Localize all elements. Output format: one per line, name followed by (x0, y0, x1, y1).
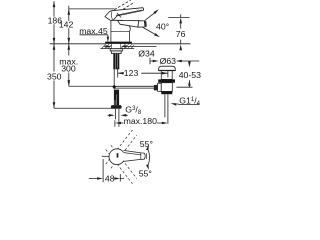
svg-text:40°: 40° (156, 22, 169, 32)
dimension G3/8 leader (108, 114, 128, 117)
popup rod (115, 86, 157, 88)
dimension 76 (168, 14, 189, 50)
top view pivot slot (117, 153, 119, 157)
drain side fitting (158, 83, 162, 91)
svg-text:G11/4: G11/4 (179, 95, 200, 107)
dimension max45 leader (80, 35, 110, 42)
drain neck (161, 71, 172, 80)
drain side knob (154, 85, 157, 90)
svg-text:55°: 55° (139, 169, 152, 179)
dimension 48 (89, 159, 124, 182)
hose junction diamond (112, 84, 116, 89)
svg-text:300: 300 (61, 64, 76, 74)
svg-text:123: 123 (124, 68, 139, 78)
drain body (161, 83, 172, 92)
deck slab cross-section with hatching (101, 44, 135, 49)
dimension max180 (115, 120, 168, 127)
svg-text:76: 76 (176, 29, 186, 39)
top view swivel arc (146, 145, 150, 170)
lower hose rod (114, 90, 119, 106)
faucet body (111, 20, 130, 41)
stub below nut (116, 109, 119, 127)
mounting nut (110, 49, 123, 51)
dimension 186 line (53, 1, 56, 108)
popup rod connector (156, 85, 160, 90)
dimension 40deg spray (143, 9, 160, 37)
G3/8 end nut (111, 105, 122, 109)
svg-text:Ø34: Ø34 (138, 48, 155, 58)
shank dark rod (113, 54, 119, 70)
dashed open lever (114, 0, 130, 9)
dimension 40-53 (176, 61, 192, 87)
svg-text:max.45: max.45 (79, 26, 108, 36)
aerator (138, 21, 145, 28)
faucet spout (118, 20, 139, 27)
dimension Ø63 (150, 58, 199, 64)
drain tail pipe (165, 94, 168, 124)
extension line 350 bottom (54, 107, 112, 109)
drain bottom band (161, 91, 172, 94)
svg-text:55°: 55° (140, 139, 153, 149)
drain flange (159, 66, 176, 70)
top view dashed swivel bands (106, 130, 137, 184)
svg-text:350: 350 (47, 72, 62, 82)
svg-text:40-53: 40-53 (179, 70, 201, 80)
svg-text:142: 142 (59, 19, 74, 29)
extension line max300 bottom (69, 85, 113, 87)
svg-text:Ø63: Ø63 (160, 56, 177, 66)
top view lever (124, 150, 146, 161)
deck line (50, 43, 191, 45)
supply hose thin line (113, 69, 115, 86)
svg-text:G3/8: G3/8 (125, 104, 142, 116)
svg-text:48: 48 (105, 174, 115, 184)
extension line 142 top (69, 8, 115, 10)
dimension G1 1/4 leader (171, 103, 200, 106)
drain collar (158, 79, 175, 82)
top view circle body (109, 149, 125, 165)
base plinth (105, 42, 132, 44)
dimension Ø34 (104, 45, 157, 48)
dimension 123 (118, 68, 168, 78)
svg-text:max.180: max.180 (124, 116, 157, 126)
top view rod stub (102, 155, 110, 157)
dimension 142 / max300 line (68, 6, 71, 86)
faucet lever handle (105, 8, 144, 21)
